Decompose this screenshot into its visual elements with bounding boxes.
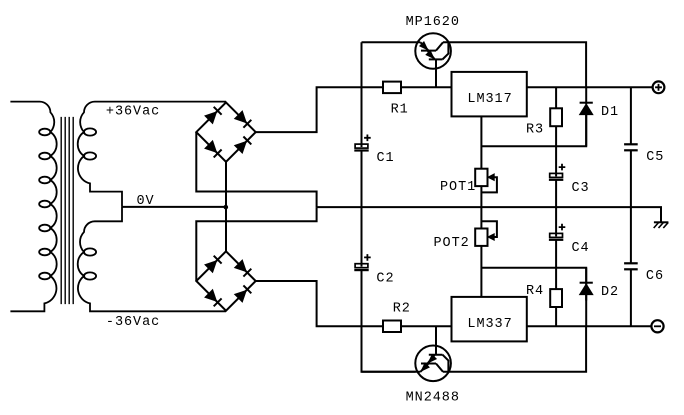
wire 0V ground rail — [317, 207, 661, 222]
svg-text:C3: C3 — [572, 181, 590, 196]
transformer T1 core — [61, 117, 73, 304]
transistor Q2 MN2488 (NPN darlington) — [415, 326, 451, 381]
wire LM337 ADJ line — [481, 246, 586, 301]
wire bottom bridge - output to R2 line — [256, 281, 383, 326]
diode D5 — [205, 141, 222, 158]
wire collector rail MN2488 to - output rail — [362, 326, 587, 372]
svg-text:-36Vac: -36Vac — [106, 315, 160, 330]
svg-text:C4: C4 — [572, 241, 590, 256]
bridge rectifier BR1 diamond outline — [196, 102, 255, 161]
diode D3 — [205, 107, 222, 124]
potentiometer POT1 — [475, 169, 497, 207]
svg-text:R3: R3 — [526, 123, 544, 138]
svg-text:MP1620: MP1620 — [406, 15, 460, 30]
svg-text:C2: C2 — [376, 271, 394, 286]
terminal + output — [653, 81, 665, 93]
wire bottom bridge vertex to ground bus — [196, 207, 316, 281]
diode D7 — [205, 256, 222, 273]
transformer T1 secondary winding lower (-36Vac) — [78, 207, 226, 311]
svg-text:LM317: LM317 — [467, 92, 512, 107]
diode D4 — [235, 111, 252, 128]
diode D9 — [205, 290, 222, 307]
svg-text:R4: R4 — [526, 284, 544, 299]
ground symbol earth — [654, 222, 669, 228]
terminal - output — [651, 320, 663, 332]
diode D6 — [235, 137, 252, 154]
resistor R1 — [383, 82, 401, 94]
svg-text:POT1: POT1 — [440, 180, 476, 195]
wire bridge AC vertical — [225, 162, 227, 252]
svg-text:POT2: POT2 — [434, 236, 470, 251]
wire LM337 output rail to - terminal — [527, 325, 652, 327]
transformer T1 primary winding — [10, 102, 56, 312]
capacitor C2 — [354, 254, 370, 270]
regulator U2 LM337 box — [452, 297, 527, 342]
wire LM317 output rail to + terminal — [527, 86, 653, 88]
svg-text:R1: R1 — [391, 103, 409, 118]
junction dot 0V node — [224, 205, 229, 210]
wire top bridge + output to R1 line — [256, 87, 383, 132]
bridge rectifier BR2 diamond outline — [196, 251, 255, 310]
transistor Q1 MP1620 (PNP darlington) — [415, 33, 451, 87]
svg-text:LM337: LM337 — [467, 317, 512, 332]
wire C6 branch — [630, 207, 632, 326]
svg-text:D1: D1 — [601, 105, 619, 120]
transformer T1 secondary winding upper (+36Vac) — [78, 102, 226, 207]
resistor R4 — [550, 289, 562, 307]
wire center tap 0V to bridges — [122, 206, 226, 208]
diode D1 — [580, 87, 593, 146]
potentiometer POT2 — [475, 207, 497, 246]
svg-text:C1: C1 — [377, 151, 395, 166]
wire LM317 ADJ line — [481, 114, 586, 169]
wire C4 R4 branch — [555, 207, 557, 326]
svg-text:+36Vac: +36Vac — [106, 104, 160, 119]
capacitor C1 — [354, 135, 370, 151]
wire raw supply vertical bus with C1 C2 — [362, 42, 416, 372]
diode D10 — [235, 285, 252, 302]
capacitor C3 — [549, 164, 565, 180]
svg-text:C6: C6 — [646, 269, 664, 284]
wire R2 to LM337 input — [401, 325, 452, 327]
wire R3 C3 branch — [555, 87, 557, 207]
diode D8 — [235, 260, 252, 277]
wire collector rail MP1620 to + output rail — [362, 42, 587, 87]
svg-text:MN2488: MN2488 — [406, 391, 460, 406]
wire top bridge negative vertex to ground bus — [196, 132, 316, 207]
svg-text:C5: C5 — [646, 150, 664, 165]
resistor R2 — [383, 321, 401, 333]
capacitor C4 — [549, 224, 565, 240]
wire C5 branch — [630, 87, 632, 207]
capacitor C6 — [624, 263, 638, 269]
svg-text:R2: R2 — [393, 302, 411, 317]
capacitor C5 — [624, 144, 638, 150]
resistor R3 — [550, 108, 562, 126]
diode D2 — [580, 268, 593, 326]
regulator U1 LM317 box — [452, 72, 527, 117]
svg-text:D2: D2 — [601, 285, 619, 300]
wire R1 to LM317 input — [401, 86, 452, 88]
